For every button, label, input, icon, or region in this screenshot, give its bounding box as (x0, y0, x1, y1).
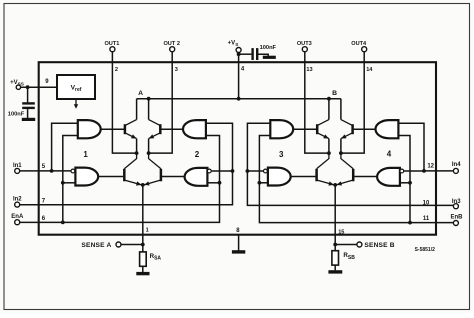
svg-text:In4: In4 (452, 162, 461, 168)
net VS rail (137, 98, 341, 100)
wire In4 to gate 4 (424, 170, 453, 172)
wire to capacitor C1 (27, 87, 29, 102)
inverting bubble gate 4 (400, 169, 404, 173)
net In3 rail (247, 123, 453, 205)
wire bridge B right emitter to output node (340, 139, 342, 154)
AND gate block 3 lower with inverting input (268, 168, 291, 186)
wire bridge B to sense pin 15 (334, 185, 336, 245)
wire In2 to gate 2 bubble (211, 170, 232, 172)
wire gate 4 lower output to Q8 base (354, 176, 377, 178)
wire bridge A right collector rail drop (148, 99, 150, 120)
wire EnB to gate 4 lower gate input (400, 182, 410, 184)
resistor RSB (332, 251, 339, 265)
svg-text:1: 1 (146, 228, 149, 234)
wire bridge B left lower collector (317, 153, 329, 169)
svg-text:EnB: EnB (451, 215, 464, 221)
node VS junction (237, 97, 241, 101)
svg-text:12: 12 (427, 163, 434, 169)
wire bridge B right collector rail drop (340, 99, 342, 120)
wire EnA to gate 1 lower gate input (63, 182, 76, 184)
AND gate block 1 upper (78, 120, 101, 138)
wire bridge A left collector rail drop (136, 99, 138, 120)
wire RSB leads (334, 245, 336, 251)
wire to capacitor C2 (239, 53, 252, 55)
transistor upper-right of bridge B (351, 124, 354, 134)
AND gate block 2 upper (183, 120, 206, 138)
node bridge A emitter junction (141, 183, 145, 187)
AND gate block 3 upper (270, 120, 293, 138)
svg-text:A: A (138, 90, 143, 97)
node bridge B right output junction (339, 151, 343, 155)
wire bridge A right lower collector (149, 153, 161, 169)
node EnA to gate 1 branch (61, 221, 65, 225)
node VSS capacitor tap (26, 85, 30, 89)
transistor upper-right of bridge A (159, 124, 162, 134)
node VS dot at bridge B left (327, 97, 331, 101)
node In2 to gate 2 inverting branch (231, 169, 235, 173)
wire bridge B left collector rail drop (328, 99, 330, 120)
wire gate 2 upper output to Q3 base (160, 128, 183, 130)
node EnA to gate 2 lower branch (218, 181, 222, 185)
svg-text:SENSE A: SENSE A (81, 242, 111, 249)
wire gate 2 lower output to Q4 base (162, 176, 185, 178)
transistor upper-left of bridge B (316, 124, 319, 134)
transistor lower-right of bridge A (160, 169, 163, 182)
svg-text:SENSE B: SENSE B (364, 242, 394, 249)
wire EnB to gate 4 upper lower-input (398, 136, 410, 223)
wire gate 1 lower output to Q2 base (98, 176, 123, 178)
node In3 to gate 3 inverting branch (246, 169, 250, 173)
svg-text:100nF: 100nF (8, 111, 25, 117)
wire C2 to ground (257, 54, 268, 56)
net EnA rail (20, 136, 220, 223)
AND gate block 4 upper (376, 120, 399, 138)
svg-text:1: 1 (83, 150, 88, 159)
svg-text:2: 2 (195, 150, 200, 159)
svg-text:4: 4 (387, 150, 392, 159)
svg-text:+VS: +VS (228, 40, 239, 47)
wire OUT3 to bridge B (305, 62, 329, 153)
node EnA to gate 1 lower branch (61, 181, 65, 185)
wire bridge A left lower collector (124, 153, 136, 169)
inverting bubble gate 3 (264, 169, 268, 173)
wire bridge B left emitter to output node (328, 139, 330, 154)
svg-text:S-5851/2: S-5851/2 (415, 247, 436, 253)
wire +VS pin 4 to VS rail (238, 62, 240, 98)
wire bridge A right emitter to output node (148, 139, 150, 154)
svg-text:15: 15 (338, 229, 344, 235)
wire gate 4 upper output to Q7 base (353, 128, 376, 130)
transistor upper-left of bridge A (124, 124, 127, 134)
node EnB to gate 4 branch (408, 221, 412, 225)
svg-text:100nF: 100nF (260, 45, 277, 51)
node bridge B left output junction (327, 151, 331, 155)
ground for RSA (136, 272, 149, 275)
transistor lower-left of bridge A (123, 169, 126, 182)
wire In3 to gate 3 bubble (247, 170, 267, 172)
node EnB to gate 4 lower branch (408, 181, 412, 185)
AND gate block 2 lower with inverting input (185, 168, 208, 186)
wire OUT4 to bridge B (341, 62, 364, 153)
node In4 branch (422, 169, 426, 173)
svg-text:3: 3 (279, 150, 284, 159)
node +VS decoupling tap (237, 52, 241, 56)
wire In4 to gate 4 upper input (398, 123, 424, 171)
wire bridge A to sense pin 1 (142, 185, 144, 245)
svg-text:11: 11 (423, 216, 430, 222)
IC body outline U1 (39, 62, 436, 235)
ground for C2 (263, 56, 276, 59)
wire SENSE A to bridge A (121, 244, 143, 246)
node sense A junction (141, 243, 145, 247)
capacitor C1 100nF (22, 102, 35, 104)
svg-text:3: 3 (175, 67, 178, 73)
wire gate 1 upper output to Q1 base (101, 128, 124, 130)
ground for RSB (328, 270, 342, 273)
wire EnA to gate 1 upper lower-input (63, 136, 78, 223)
voltage reference block Vref (57, 75, 95, 99)
wire +VSS to Vref (21, 86, 57, 88)
transistor lower-right of bridge B (352, 169, 355, 182)
Vref internal supply arrow (75, 99, 77, 105)
svg-text:2: 2 (115, 67, 118, 73)
svg-text:13: 13 (306, 67, 312, 73)
svg-text:B: B (332, 90, 337, 97)
wire EnA to gate 2 lower gate input (207, 182, 219, 184)
node bridge B emitter junction (333, 183, 337, 187)
AND gate block 4 lower with inverting input (377, 168, 400, 186)
wire OUT2 to bridge A (149, 62, 173, 153)
net EnB rail (259, 136, 453, 223)
wire SENSE B to bridge B (335, 244, 357, 246)
AND gate block 1 lower with inverting input (75, 168, 98, 186)
inverting bubble gate 2 (207, 169, 211, 173)
resistor RSA (140, 252, 147, 266)
wire EnB to gate 3 lower gate input (259, 182, 268, 184)
node bridge A left output junction (135, 151, 139, 155)
inverting bubble gate 1 (71, 169, 75, 173)
wire In1 to gate 1 (20, 170, 71, 172)
wire C1 to ground (27, 109, 29, 118)
capacitor C2 100nF (251, 48, 253, 60)
wire bridge B right lower collector (341, 153, 353, 169)
wire gate 3 upper output to Q5 base (293, 128, 316, 130)
node bridge A right output junction (147, 151, 151, 155)
transistor lower-left of bridge B (315, 169, 318, 182)
svg-text:14: 14 (366, 67, 373, 73)
node In1 branch (50, 169, 54, 173)
node VS dot at bridge A right (147, 97, 151, 101)
wire bridge A left emitter to output node (136, 139, 138, 154)
wire gate 3 lower output to Q6 base (291, 176, 316, 178)
node EnB to gate 3 lower branch (258, 181, 262, 185)
net In2 rail (20, 123, 233, 205)
wire In1 to gate 1 upper input (52, 123, 78, 171)
wire RSA leads (142, 245, 144, 252)
ground for C1 (22, 118, 35, 121)
wire OUT1 to bridge A (112, 62, 136, 153)
wire In4 to gate 4 bubble (404, 170, 424, 172)
node sense B junction (333, 243, 337, 247)
